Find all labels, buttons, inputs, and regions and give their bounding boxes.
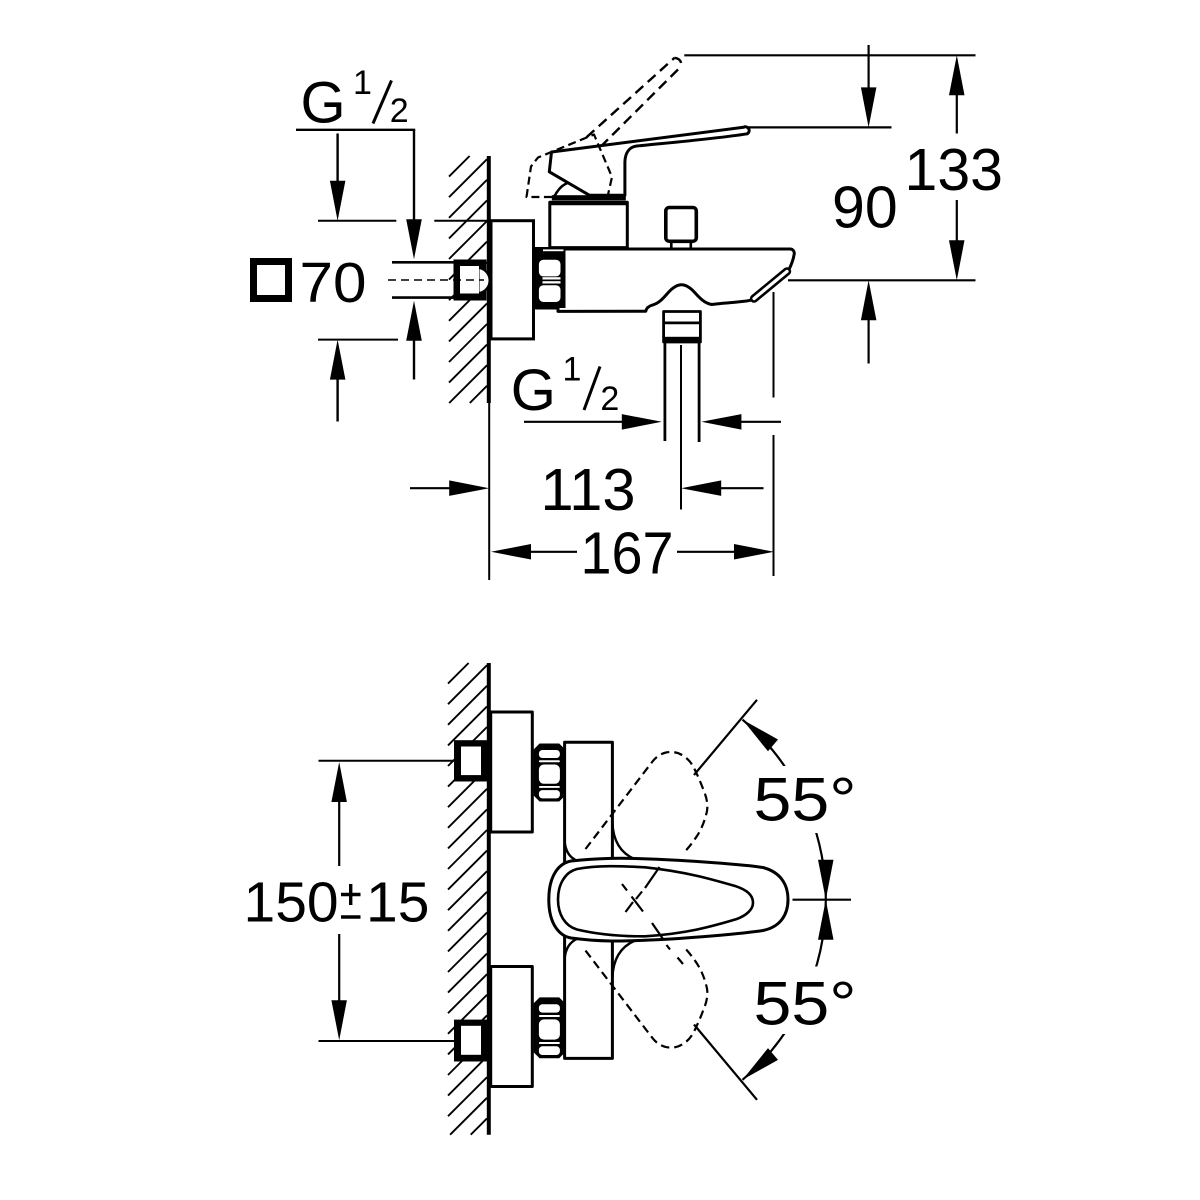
cartridge housing column <box>550 202 628 247</box>
shower hose <box>664 342 667 441</box>
faucet body (front view) <box>565 742 613 1058</box>
dimension 113 <box>410 487 451 489</box>
body-handle fillet bottom-left <box>565 939 577 959</box>
dimension 150±15 <box>331 762 347 802</box>
svg-text:150: 150 <box>244 871 339 935</box>
svg-text:70: 70 <box>300 251 367 315</box>
wall line (side view) <box>487 156 491 403</box>
svg-text:133: 133 <box>905 137 1003 203</box>
union nut (side view) <box>535 247 566 308</box>
union nut bottom (front view) <box>534 997 566 1058</box>
dashed lever raised (side view) <box>587 58 675 138</box>
diverter knob <box>666 208 697 242</box>
body-handle fillet bottom <box>612 941 635 979</box>
arrow G1/2 hose left <box>524 421 623 423</box>
text mask 55 upper <box>747 766 865 833</box>
dashed lever up 55 (front view) <box>586 752 708 852</box>
angle arc upper <box>743 720 826 900</box>
arrow G1/2 to pipe top <box>413 130 415 222</box>
arrow 70 bottom <box>336 377 338 422</box>
svg-text:1: 1 <box>563 351 582 389</box>
spout aerator face <box>754 271 787 298</box>
spout extension line <box>773 292 775 398</box>
cartridge dome (side view) <box>555 183 589 197</box>
svg-text:15: 15 <box>366 871 429 935</box>
dashed centre marks on handle <box>622 867 683 964</box>
escutcheon plate bottom (front view) <box>491 967 533 1087</box>
svg-text:2: 2 <box>600 380 619 418</box>
dim line top (lever tip level 133) <box>684 54 975 56</box>
faucet body (side view) <box>536 249 794 311</box>
text mask 55 lower <box>747 967 865 1035</box>
svg-text:167: 167 <box>581 521 674 587</box>
body-handle fillet top-left <box>565 841 577 861</box>
dimension 133 arrows <box>949 55 965 95</box>
svg-text:2: 2 <box>390 92 409 130</box>
handle (front view) outer <box>549 858 788 941</box>
union nut top (front view) <box>534 744 566 802</box>
dashed lever down 55 (front view) <box>586 948 708 1048</box>
square symbol 70 <box>254 262 289 299</box>
reference line 55 up <box>694 700 757 775</box>
svg-text:G: G <box>301 71 346 136</box>
handle (front view) inner line <box>558 866 753 936</box>
dim line spout level <box>788 279 976 281</box>
svg-text:G: G <box>511 358 556 423</box>
angle arc lower <box>743 900 826 1080</box>
escutcheon plate (side view) <box>491 221 534 339</box>
reference line 55 down <box>694 1025 757 1100</box>
horizontal reference line <box>793 899 852 901</box>
dim line lever tip (90) <box>748 126 892 128</box>
body-handle fillet top <box>612 822 635 859</box>
wall hatching (front view) <box>448 663 487 1135</box>
handle cap bar <box>552 195 626 200</box>
wall extension line <box>488 403 490 580</box>
dimension 167 <box>491 544 531 560</box>
dimension 90 arrows <box>867 45 869 90</box>
supply pipe (side view) <box>392 261 455 264</box>
label G 1/2 (top) <box>301 64 409 136</box>
arrow 70 top <box>336 134 338 184</box>
hose coupling <box>664 312 701 343</box>
arc arrowheads <box>743 720 834 1080</box>
extension lines 70 <box>318 220 396 222</box>
wall fitting bottom (front view) <box>454 1020 487 1062</box>
wall line (front view) <box>487 663 491 1135</box>
svg-text:55°: 55° <box>754 766 857 834</box>
dashed handle base raised (side view) <box>527 135 613 198</box>
concealed union fitting (side view) <box>454 260 490 301</box>
wall fitting top (front view) <box>454 740 487 781</box>
extension line bottom connection <box>319 1040 455 1042</box>
label G 1/2 (bottom) <box>511 351 620 423</box>
escutcheon plate top (front view) <box>491 712 533 832</box>
extension line top connection <box>319 760 455 762</box>
svg-text:113: 113 <box>541 457 636 523</box>
arrow G1/2 hose right <box>740 421 782 423</box>
pipe centreline <box>388 279 484 281</box>
svg-text:55°: 55° <box>754 970 857 1038</box>
wall hatching (side view) <box>449 156 487 403</box>
svg-text:1: 1 <box>353 64 372 102</box>
svg-text:90: 90 <box>832 175 898 241</box>
arrow G1/2 pipe bottom <box>413 338 415 380</box>
hose centre extension line <box>680 345 682 510</box>
handle lever (side view) <box>549 127 749 196</box>
